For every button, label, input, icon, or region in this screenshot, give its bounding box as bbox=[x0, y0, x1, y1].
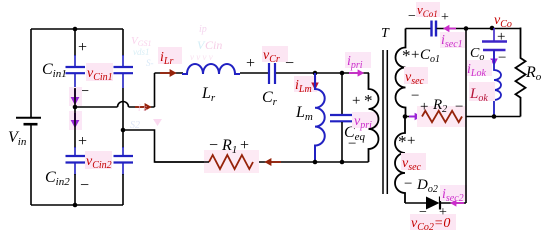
node: secondary center tap junction bbox=[403, 114, 408, 119]
battery Vin bbox=[16, 118, 41, 125]
node: Ceq bottom junction bbox=[340, 160, 345, 165]
svg-text:ip: ip bbox=[199, 24, 207, 35]
wire: leg1 mid segment bbox=[74, 88, 76, 107]
capacitor leg2 top bbox=[114, 55, 134, 88]
current arrow ipri (magenta, right) bbox=[349, 69, 364, 76]
svg-text:−: − bbox=[455, 99, 463, 115]
transformer secondary winding 1 bbox=[396, 29, 406, 117]
inductor Lr bbox=[182, 64, 240, 74]
svg-text:i s: i s bbox=[138, 103, 147, 114]
current arrow on midpoint wire (dark red, right) bbox=[135, 103, 152, 111]
current arrow return (dark red, left) bbox=[264, 158, 281, 166]
svg-text:+: + bbox=[439, 205, 447, 220]
label iLm bbox=[294, 76, 317, 92]
label vsec2 bbox=[401, 153, 426, 170]
wire: leg2 mid segment bbox=[122, 88, 124, 130]
current arrow R2 (purple, right) bbox=[409, 113, 422, 120]
capacitor leg2 bottom bbox=[114, 147, 134, 175]
wire: top resonant rail to Lr bbox=[155, 72, 184, 74]
svg-text:−: − bbox=[498, 50, 506, 66]
svg-text:+: + bbox=[240, 137, 249, 154]
capacitor Co1 bbox=[432, 21, 437, 37]
node: leg1 top rail junction bbox=[73, 27, 78, 32]
node: Lok bottom junction bbox=[492, 114, 497, 119]
label vCo2=0 bbox=[410, 214, 456, 230]
transformer core bbox=[383, 50, 387, 194]
svg-text:vds1: vds1 bbox=[133, 47, 150, 57]
wire: input loop top rail bbox=[31, 28, 123, 30]
wire: R1 to switch node riser bbox=[123, 130, 209, 162]
svg-text:−: − bbox=[80, 177, 89, 194]
node: Ceq top junction bbox=[340, 71, 345, 76]
wire: leg1 bottom segment bbox=[74, 174, 76, 205]
resistor R1 bbox=[204, 150, 259, 173]
svg-text:v v v v: v v v v bbox=[190, 52, 213, 62]
svg-text:−: − bbox=[348, 136, 356, 152]
svg-text:−: − bbox=[404, 176, 412, 192]
svg-text:−: − bbox=[285, 55, 294, 72]
capacitor Cin2 bbox=[66, 147, 86, 175]
capacitor Co bbox=[482, 28, 507, 50]
wire: leg2 bottom segment bbox=[122, 174, 124, 205]
transformer secondary winding 2 bbox=[395, 117, 405, 204]
diode Do2 bbox=[426, 197, 440, 210]
capacitor Cin1 bbox=[66, 55, 86, 88]
wire: cap midpoint to riser with crossover hop bbox=[75, 102, 155, 108]
wire: primary bottom rail bbox=[155, 161, 369, 163]
resistor Ro bbox=[516, 28, 526, 117]
svg-text:*: * bbox=[402, 46, 411, 65]
svg-text:*: * bbox=[398, 132, 407, 151]
wire: Co1 to output node bbox=[437, 28, 467, 30]
current arrow through Cin1 (purple, down) bbox=[69, 87, 82, 106]
wire: top rail Ceq to primary bbox=[342, 72, 369, 74]
label Lok bbox=[469, 82, 495, 101]
wire: output top rail bbox=[466, 28, 521, 30]
wire: output bottom rail bbox=[405, 116, 521, 118]
resistor R2 bbox=[417, 106, 466, 127]
wire: leg2 lower segment bbox=[122, 130, 124, 148]
label isec1 bbox=[440, 32, 465, 48]
svg-text:T: T bbox=[381, 26, 390, 41]
wire: leg1 upper segment bbox=[74, 29, 76, 56]
wire: Cr to Lm node bbox=[276, 72, 342, 74]
node: Lm bottom junction bbox=[313, 160, 318, 165]
node: switch-node junction leg2 bbox=[121, 128, 126, 133]
svg-text:S-: S- bbox=[146, 58, 154, 68]
svg-text:−: − bbox=[408, 9, 416, 24]
current arrow isec1 (magenta, left) bbox=[443, 25, 456, 32]
svg-text:+: + bbox=[246, 55, 255, 72]
label iLok bbox=[466, 60, 492, 76]
current arrow through Cin2 (purple, down) bbox=[69, 111, 82, 130]
svg-text:*: * bbox=[364, 91, 373, 110]
node: Lm top junction bbox=[313, 71, 318, 76]
wire: input left rail upper bbox=[30, 29, 32, 117]
label vpri bbox=[352, 112, 378, 128]
wire: leg1 lower segment bbox=[74, 107, 76, 148]
svg-text:−: − bbox=[209, 137, 218, 154]
svg-text:−: − bbox=[419, 205, 427, 220]
wire: secondary1 top to Co1 bbox=[406, 28, 432, 30]
label vCin1 bbox=[86, 63, 113, 81]
svg-text:+: + bbox=[441, 10, 449, 25]
current arrow iLm (crimson, down) bbox=[311, 75, 319, 90]
svg-text:+: + bbox=[78, 133, 87, 150]
wire: Lr to Cr bbox=[240, 72, 268, 74]
wire: riser up to resonant branch bbox=[154, 73, 156, 107]
label iLr bbox=[158, 47, 182, 64]
wire: diode to output return bbox=[441, 202, 466, 204]
wire: input loop bottom rail bbox=[31, 204, 123, 206]
wire: secondary2 bottom to diode bbox=[405, 202, 426, 204]
svg-text:S2: S2 bbox=[130, 120, 140, 131]
svg-text:+: + bbox=[352, 93, 360, 109]
svg-text:−: − bbox=[411, 88, 419, 104]
capacitor Cr bbox=[269, 63, 275, 84]
current arrow iLr (dark red, right) bbox=[160, 69, 177, 77]
inductor Lm bbox=[315, 73, 325, 162]
label ipri bbox=[345, 52, 371, 68]
current arrow iLok (purple, down) bbox=[490, 51, 498, 66]
transformer primary winding bbox=[369, 73, 379, 162]
label isec2 bbox=[440, 185, 467, 201]
svg-text:Cin: Cin bbox=[205, 38, 222, 52]
node: Co top junction bbox=[490, 26, 495, 31]
svg-text:+: + bbox=[78, 39, 87, 56]
wire: input left rail lower bbox=[30, 124, 32, 205]
svg-text:+: + bbox=[407, 133, 415, 149]
inductor Lok bbox=[494, 50, 501, 117]
wire: leg2 upper segment bbox=[122, 29, 124, 56]
label vCr bbox=[262, 46, 288, 62]
capacitor Ceq bbox=[330, 73, 354, 162]
label vsec1 bbox=[404, 67, 428, 84]
label vCin2 bbox=[85, 151, 112, 169]
svg-text:+: + bbox=[420, 99, 428, 115]
node: leg1 bottom rail junction bbox=[73, 203, 78, 208]
ghost label artifacts bbox=[130, 24, 222, 131]
wire: output return right vertical bbox=[465, 29, 467, 204]
current arrow isec2 (magenta, left) bbox=[450, 199, 464, 206]
node: cap midpoint junction bbox=[73, 105, 78, 110]
svg-text:+: + bbox=[411, 47, 419, 63]
node: output top left junction bbox=[464, 26, 469, 31]
